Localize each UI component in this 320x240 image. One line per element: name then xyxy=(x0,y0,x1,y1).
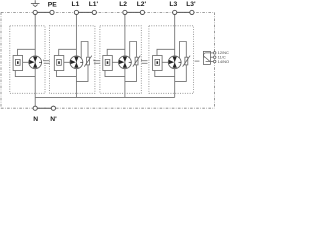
svg-text:14/NO: 14/NO xyxy=(218,59,230,64)
enclosure dash-dot border (bottom) xyxy=(1,107,214,109)
svg-text:L3: L3 xyxy=(169,1,177,8)
plug-in connection symbol between module 1 and module 2 xyxy=(44,60,50,64)
dashed mechanical link fuse to signalling contact xyxy=(195,60,200,62)
module 4 tie wire disconnector to arrester electrode xyxy=(162,61,168,63)
module 4 disconnector branch: top bar and stub xyxy=(157,49,175,55)
terminal L2 xyxy=(123,10,127,14)
module 4 disconnector contact dot xyxy=(157,61,159,64)
module 2 conductor through arrester xyxy=(75,56,77,69)
svg-text:N': N' xyxy=(50,116,57,122)
svg-text:N: N xyxy=(33,116,38,122)
earth/ground symbol above PE terminal xyxy=(31,0,40,6)
signalling terminal 14/NO xyxy=(210,61,213,63)
enclosure dash-dot border (left) xyxy=(0,12,2,108)
terminal L1 xyxy=(74,10,78,14)
module 3 conductor through arrester xyxy=(124,56,126,69)
module 2 fuse branch: lower link to conductor xyxy=(76,65,88,82)
spark-gap arrester circle, module 2 xyxy=(70,56,83,69)
terminal PE xyxy=(50,10,54,14)
spark-gap arrester circle, module 1 xyxy=(29,56,42,69)
wire: internal link L3 - L3' xyxy=(175,11,192,13)
wire: internal N collector bus xyxy=(35,96,175,98)
signalling terminal 11/C xyxy=(210,56,213,58)
module 4 fuse diagonal stroke xyxy=(183,56,191,67)
wire: internal link L2 - L2' xyxy=(125,11,142,13)
changeover contact internals xyxy=(204,53,211,62)
svg-text:PE: PE xyxy=(48,1,57,8)
module 3 fuse diagonal stroke xyxy=(133,56,141,67)
module 2 arrester right electrode tick xyxy=(80,61,83,63)
module 4 disconnector inner square xyxy=(155,59,160,65)
module 3 thermal disconnector outer box xyxy=(103,56,113,71)
terminal N xyxy=(33,106,37,110)
remote signalling changeover contact box xyxy=(203,51,210,64)
module 1 tie wire disconnector to arrester electrode xyxy=(23,61,29,63)
svg-text:L2: L2 xyxy=(119,1,127,8)
module 1 disconnector branch: top bar and stub xyxy=(18,49,36,55)
module 1 conductor through arrester xyxy=(34,56,36,69)
module 4 disconnector branch: bottom stub and bar xyxy=(155,71,175,77)
wire: internal link PE earth - PE xyxy=(35,11,52,13)
protection module 3 dotted outline xyxy=(100,26,141,94)
module 4 fuse branch: upper link from arrester xyxy=(180,42,187,59)
terminal L2' xyxy=(140,10,144,14)
module 2 disconnector branch: top bar and stub xyxy=(59,49,77,55)
svg-text:L2': L2' xyxy=(137,1,147,8)
module 2 tie wire disconnector to arrester electrode xyxy=(64,61,70,63)
module 4 fuse branch: lower link to conductor xyxy=(175,65,187,82)
module 2 disconnector inner square xyxy=(57,59,62,65)
protection module 1 dotted outline xyxy=(10,26,45,94)
wire: module 1 main vertical conductor xyxy=(34,15,36,107)
module 1 thermal disconnector outer box xyxy=(13,56,23,71)
module 4 backup fuse body xyxy=(185,57,188,65)
module 3 disconnector branch: top bar and stub xyxy=(107,49,125,55)
plug-in connection symbol between module 2 and module 3 xyxy=(94,60,100,64)
module 1 disconnector inner square xyxy=(16,59,21,65)
module 3 disconnector contact dot xyxy=(107,61,109,64)
module 3 disconnector inner square xyxy=(105,59,110,65)
module 2 disconnector contact dot xyxy=(58,61,60,64)
module 1 arrester triangles (spark gap electrodes) xyxy=(33,57,37,63)
module 4 conductor through arrester xyxy=(174,56,176,69)
module 3 backup fuse body xyxy=(135,57,138,65)
module 2 arrester triangles (spark gap electrodes) xyxy=(74,57,78,63)
module 3 tie wire disconnector to arrester electrode xyxy=(112,61,118,63)
svg-text:L1: L1 xyxy=(71,1,79,8)
terminal L3 xyxy=(173,10,177,14)
module 3 arrester right electrode tick xyxy=(129,61,132,63)
module 4 thermal disconnector outer box xyxy=(153,56,163,71)
enclosure dash-dot border (top) xyxy=(1,11,214,13)
protection module 2 dotted outline xyxy=(49,26,95,94)
terminal N' xyxy=(51,106,55,110)
svg-text:L1': L1' xyxy=(89,1,99,8)
module 2 fuse diagonal stroke xyxy=(84,56,92,67)
module 4 arrester right electrode tick xyxy=(179,61,182,63)
module 3 disconnector branch: bottom stub and bar xyxy=(105,71,125,77)
module 1 arrester right electrode tick xyxy=(39,61,42,63)
module 3 fuse branch: lower link to conductor xyxy=(125,65,137,82)
svg-text:L3': L3' xyxy=(186,1,196,8)
module 2 thermal disconnector outer box xyxy=(54,56,64,71)
spark-gap arrester circle, module 3 xyxy=(119,56,132,69)
module 3 fuse branch: upper link from arrester xyxy=(130,42,137,59)
signalling terminal 12/NC xyxy=(210,52,213,54)
module 2 fuse branch: upper link from arrester xyxy=(81,42,88,59)
PE earth terminal xyxy=(33,10,37,14)
spark-gap arrester circle, module 4 xyxy=(168,56,181,69)
module 4 arrester triangles (spark gap electrodes) xyxy=(173,57,177,63)
module 2 backup fuse body xyxy=(87,57,90,65)
wire: module 4 main vertical conductor xyxy=(174,15,176,98)
terminal L3' xyxy=(190,10,194,14)
wire: internal link L1 - L1' xyxy=(76,11,94,13)
wire: internal link N - N' xyxy=(35,107,53,109)
wire: module 3 main vertical conductor xyxy=(124,15,126,98)
wire: module 2 main vertical conductor xyxy=(75,15,77,98)
plug-in connection symbol between module 3 and module 4 xyxy=(142,60,148,64)
protection module 4 dotted outline xyxy=(149,26,194,94)
module 2 disconnector branch: bottom stub and bar xyxy=(57,71,77,77)
enclosure dash-dot border (right) xyxy=(213,12,215,108)
module 1 disconnector contact dot xyxy=(17,61,19,64)
module 3 arrester triangles (spark gap electrodes) xyxy=(123,57,127,63)
module 1 disconnector branch: bottom stub and bar xyxy=(15,71,35,77)
terminal L1' xyxy=(92,10,96,14)
